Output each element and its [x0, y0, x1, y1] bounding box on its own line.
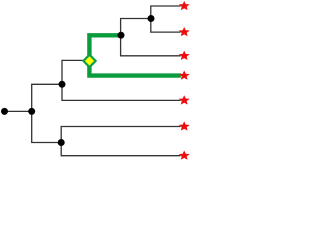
wire root to node F — [5, 110, 32, 112]
leaf star 6 — [179, 121, 190, 130]
wire node F down to node C — [32, 111, 62, 142]
wire node C up to leaf 6 — [61, 127, 180, 143]
node F dot — [28, 108, 35, 115]
node E dot — [59, 81, 66, 88]
node A dot — [118, 32, 125, 39]
green highlighted branch diamond to leaf 4 — [89, 61, 180, 76]
leaf star 1 — [179, 1, 190, 10]
wire node F up to node E — [32, 84, 62, 111]
wire node C down to leaf 7 — [61, 143, 180, 156]
node B dot — [148, 15, 155, 22]
node G root dot — [1, 108, 8, 115]
diamond node D (selected node) — [83, 55, 95, 67]
wire node E up to diamond node — [62, 60, 83, 84]
leaf star 2 — [179, 27, 190, 36]
green highlighted branch diamond to node A — [89, 35, 121, 61]
wire node B down to leaf 2 — [151, 19, 181, 33]
wire node A up to node B — [121, 19, 151, 36]
wire node B up to leaf 1 — [151, 6, 181, 19]
leaf star 4 on green branch — [179, 70, 190, 79]
leaf star 5 — [179, 95, 190, 104]
wire node A down to leaf 3 — [121, 35, 181, 56]
leaf star 7 — [179, 150, 190, 159]
node C dot — [58, 139, 65, 146]
leaf star 3 — [179, 51, 190, 60]
wire node E down to leaf 5 — [62, 84, 181, 100]
